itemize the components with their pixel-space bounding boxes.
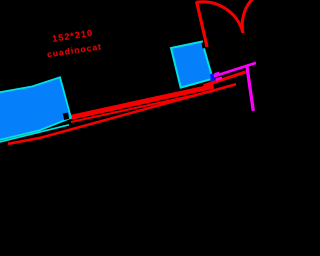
wire: magenta selected wall line (diagonal) [214, 63, 256, 77]
wire: red wall B diagonal [204, 72, 246, 86]
wire: magenta short dash above [214, 73, 219, 74]
wire: red wall band second line [71, 91, 214, 122]
node A: left blue window panel (cyan border) [0, 77, 71, 141]
node E: blue selection grip, right panel bottom-right corner [210, 74, 214, 82]
wire: long red lower wall line [8, 84, 236, 144]
wire: magenta slanted vertical line [247, 66, 253, 111]
wire: red door swing arc left [196, 2, 243, 33]
wire: red door leaf [197, 2, 208, 47]
wire: cyan sill line under left window [0, 125, 69, 143]
wire: magenta short dash below [216, 78, 223, 80]
node D: black grip square, right panel top-right corner (door hinge) [201, 42, 206, 49]
wire: red door swing arc right [242, 0, 252, 33]
wire: red wall band upper line [71, 86, 214, 117]
node B: black grip square, left panel bottom-right corner [63, 112, 69, 120]
node C: right blue window panel (cyan border) [171, 42, 213, 88]
node F: red annotation text "152*210" [44, 27, 102, 60]
